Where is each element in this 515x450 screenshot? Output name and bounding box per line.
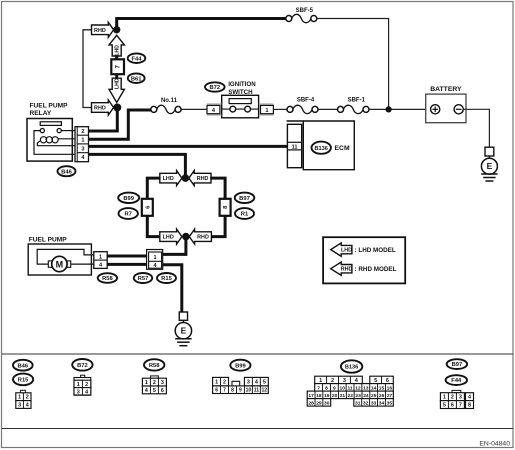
svg-text:23: 23 (355, 393, 361, 399)
wire thick right branch down through connector 8 (210, 178, 225, 199)
connector label B136 inside ECM (312, 142, 331, 154)
svg-text:28: 28 (308, 400, 314, 406)
svg-text:R7: R7 (124, 212, 131, 218)
svg-text:7: 7 (317, 385, 320, 391)
svg-text:RELAY: RELAY (30, 110, 52, 117)
legend LHD arrow (331, 243, 352, 256)
arrow LHD into bottom node (160, 229, 182, 244)
svg-text:SBF-5: SBF-5 (296, 8, 314, 14)
arrow RHD (top, points right into node) (92, 22, 114, 37)
svg-text:3: 3 (161, 380, 164, 386)
svg-text:9: 9 (239, 388, 242, 394)
svg-text:RHD: RHD (341, 267, 353, 273)
svg-text:RHD: RHD (197, 176, 209, 182)
svg-text:35: 35 (387, 400, 393, 406)
svg-text:3: 3 (81, 146, 84, 152)
motor M1 brushes (48, 261, 52, 267)
svg-text:E: E (181, 326, 187, 336)
connector label R15 (pinout) (13, 374, 33, 386)
svg-text:26: 26 (379, 393, 385, 399)
svg-text:25: 25 (371, 393, 377, 399)
svg-text:B99: B99 (235, 363, 246, 369)
wire thick node down to relay pin 2 (89, 108, 118, 132)
connector label R57 oval (134, 273, 152, 283)
svg-text:RHD: RHD (197, 235, 209, 241)
wire thick R57 pin4 right and down to ground (163, 265, 182, 312)
connector label F44 (128, 53, 146, 63)
node junction dot battery feed (386, 106, 392, 112)
ground E (battery) (485, 147, 494, 156)
connector label R58 (pinout) (144, 359, 164, 370)
connector label B97 (pinout) (447, 359, 467, 369)
node junction dot top of diamond (182, 174, 190, 182)
svg-text:5: 5 (443, 403, 446, 409)
wire coil left end to pin 3 (37, 141, 75, 146)
connector B99 pinout 12-pin (213, 377, 229, 386)
svg-text:9: 9 (333, 385, 336, 391)
motor M1 fuel pump (52, 256, 67, 271)
battery BT1 box (426, 94, 466, 123)
svg-text:24: 24 (363, 393, 369, 399)
svg-text:3: 3 (343, 378, 346, 384)
svg-text:EN-04840: EN-04840 (479, 441, 510, 448)
svg-text:10: 10 (339, 385, 345, 391)
svg-text:RHD: RHD (94, 28, 106, 34)
svg-text:6: 6 (161, 388, 164, 394)
svg-text:F44: F44 (451, 378, 462, 384)
svg-text:R1: R1 (241, 212, 249, 218)
svg-text:12: 12 (355, 385, 361, 391)
svg-text:: RHD MODEL: : RHD MODEL (355, 266, 397, 273)
svg-text:11: 11 (254, 388, 260, 394)
svg-text:21: 21 (340, 393, 346, 399)
svg-text:B46: B46 (17, 363, 28, 369)
svg-text:8: 8 (231, 388, 234, 394)
connector label B46 (pinout) (13, 360, 33, 371)
arrow LHD into top node (160, 171, 182, 186)
svg-text:1: 1 (18, 395, 21, 401)
svg-text:LHD: LHD (163, 235, 174, 241)
svg-text:6: 6 (451, 403, 454, 409)
svg-text:M: M (56, 259, 64, 269)
battery minus terminal (454, 105, 463, 114)
connector label B99 (pinout) (230, 360, 250, 371)
wire ignition pin1 to SBF-4 (273, 108, 287, 110)
svg-text:5: 5 (263, 380, 266, 386)
svg-text:4: 4 (468, 395, 471, 401)
relay contact terminals (40, 129, 44, 133)
svg-text:6: 6 (215, 388, 218, 394)
wire thick relay pin 3 to ECM pin 11 (89, 145, 288, 148)
wire thick R58 pin4 to R57 pin4 (107, 263, 146, 266)
svg-text:1: 1 (265, 108, 268, 114)
wire SBF-4 to SBF-1 (318, 108, 338, 110)
svg-text:22: 22 (348, 393, 354, 399)
svg-text:3: 3 (459, 395, 462, 401)
arrow LHD pointing up (109, 35, 124, 56)
connector R58 pinout 3x2 (151, 376, 159, 378)
svg-text:3: 3 (18, 403, 21, 409)
wire thick LHD arrow to fuse 7 (115, 56, 118, 60)
svg-text:LHD: LHD (115, 45, 121, 56)
wire battery minus to ground (463, 109, 489, 147)
svg-text:E: E (487, 161, 493, 171)
wire thick relay pin 4 right and down to LHD/RHD node (89, 154, 186, 175)
svg-text:R15: R15 (18, 378, 29, 384)
svg-text:31: 31 (355, 400, 361, 406)
svg-text:B136: B136 (345, 365, 358, 371)
svg-text:B99: B99 (123, 196, 134, 202)
svg-text:2: 2 (223, 380, 226, 386)
svg-text:8: 8 (325, 385, 328, 391)
svg-text:2: 2 (26, 395, 29, 401)
svg-text:B61: B61 (131, 76, 142, 82)
svg-text:17: 17 (308, 393, 314, 399)
wire left contact to pin 4 (34, 131, 75, 155)
wire fuse No.11 to ignition switch pin 4 (181, 108, 207, 110)
node junction dot above fuel pump relay (113, 104, 121, 112)
ignition switch SW1 box (222, 95, 259, 118)
svg-text:4: 4 (255, 380, 258, 386)
svg-text:1: 1 (443, 395, 446, 401)
ignition switch terminals (222, 108, 259, 110)
connector B97/F44 pinout 8-pin (452, 390, 461, 392)
wire thin left bracket joining RHD arrow tails (83, 30, 92, 108)
svg-text:1: 1 (77, 382, 80, 388)
svg-text:2: 2 (85, 382, 88, 388)
connector R57/R15 pins 1 4 (147, 250, 163, 270)
svg-text:SBF-4: SBF-4 (297, 98, 315, 104)
wire pump internal to pin 1 (37, 249, 94, 264)
fuse SBF-5 on top feed (286, 16, 292, 22)
svg-text:B72: B72 (209, 85, 220, 91)
svg-text:R57: R57 (138, 276, 149, 282)
svg-text:2: 2 (451, 395, 454, 401)
fuse SBF-1 (338, 106, 344, 112)
fuel pump box (28, 244, 91, 275)
legend RHD arrow (331, 262, 352, 275)
svg-text:FUEL PUMP: FUEL PUMP (29, 236, 68, 243)
arrow RHD into top node (189, 171, 211, 186)
svg-text:8: 8 (468, 403, 471, 409)
svg-text:5: 5 (374, 378, 377, 384)
svg-text:1: 1 (99, 254, 102, 260)
arrow RHD (bottom, points right into node) (92, 100, 114, 115)
svg-text:IGNITION: IGNITION (228, 81, 256, 88)
ECM U2 box (287, 121, 355, 170)
svg-text:B136: B136 (315, 146, 328, 152)
connector label B72 (205, 82, 225, 91)
connector label B136 (pinout) (341, 360, 362, 372)
svg-text:18: 18 (316, 393, 322, 399)
svg-text:2: 2 (81, 129, 84, 135)
relay U1 box (27, 119, 72, 162)
svg-text:33: 33 (371, 400, 377, 406)
separator line above footer (2, 428, 513, 430)
svg-text:FUEL PUMP: FUEL PUMP (30, 103, 69, 110)
svg-text:1: 1 (81, 138, 84, 144)
wire thick bottom node down to R57 pin 1 (163, 237, 186, 255)
svg-text:12: 12 (262, 388, 268, 394)
ignition pin 1 cell (259, 103, 274, 105)
svg-text:27: 27 (387, 393, 393, 399)
ignition pin 4 cell (207, 103, 222, 105)
connector label R1 (235, 208, 254, 219)
svg-text:3: 3 (77, 389, 80, 395)
svg-text:: LHD MODEL: : LHD MODEL (355, 247, 396, 254)
svg-text:13: 13 (363, 385, 369, 391)
svg-text:F44: F44 (132, 56, 143, 62)
svg-text:3: 3 (247, 380, 250, 386)
svg-text:LHD: LHD (115, 78, 121, 89)
wire thick R58 pin1 to R57 pin1 (107, 255, 146, 258)
svg-text:15: 15 (379, 385, 385, 391)
connector R58 pins 1 4 (94, 252, 107, 269)
battery plus terminal (431, 105, 440, 114)
svg-text:16: 16 (387, 385, 393, 391)
arrow RHD into bottom node (189, 229, 211, 244)
relay connector strip pins 2 1 3 4 (75, 127, 89, 162)
wire thick from top node up and right to SBF-5 (117, 19, 288, 34)
svg-text:11: 11 (347, 385, 352, 391)
relay coil L1 (40, 137, 46, 143)
wire right contact to pin 2 (61, 130, 75, 132)
svg-text:R58: R58 (102, 276, 113, 282)
svg-text:19: 19 (324, 393, 330, 399)
svg-text:29: 29 (316, 400, 322, 406)
svg-text:4: 4 (85, 389, 88, 395)
svg-text:20: 20 (332, 393, 338, 399)
connector label B61 (128, 73, 145, 83)
svg-text:LHD: LHD (163, 176, 174, 182)
svg-text:B97: B97 (452, 362, 463, 368)
ECM connector strip with pin 11 (287, 124, 301, 167)
svg-text:32: 32 (363, 400, 369, 406)
svg-text:1: 1 (319, 378, 322, 384)
fuse No.11 (151, 106, 157, 112)
connector B46/R15 pinout 2x2 (21, 390, 26, 393)
ignition switch contact bar (229, 99, 251, 104)
fuse 7 box (F44/B61 circuit breaker) (111, 59, 124, 74)
svg-text:R15: R15 (161, 276, 172, 282)
connector label B99 at diamond (118, 193, 139, 203)
separator line above connector section (2, 353, 513, 355)
svg-text:14: 14 (371, 385, 377, 391)
svg-text:LHD: LHD (341, 248, 352, 254)
svg-text:4: 4 (26, 403, 29, 409)
connector label B97 at diamond (235, 193, 255, 203)
svg-text:4: 4 (145, 388, 148, 394)
svg-text:B97: B97 (239, 196, 250, 202)
node junction dot top-left (113, 26, 120, 33)
wire coil right end to pin 1 (58, 138, 75, 140)
connector 6 box (B99/R7) (142, 199, 153, 216)
svg-text:2: 2 (331, 378, 334, 384)
svg-text:RHD: RHD (94, 106, 106, 112)
wire SBF-1 to battery plus (369, 108, 431, 110)
ground E (fuel pump) (179, 312, 187, 320)
svg-text:B46: B46 (61, 169, 72, 175)
svg-text:34: 34 (379, 400, 385, 406)
connector label F44 (pinout) (446, 375, 467, 385)
svg-text:B72: B72 (77, 363, 88, 369)
svg-text:ECM: ECM (335, 145, 350, 152)
wire thick left branch down through connector 6 (147, 178, 160, 199)
connector label R58 oval (98, 273, 117, 283)
wire thick relay pin 1 up to fuse No.11 (89, 110, 152, 139)
wire thick fuse to LHD down arrow (115, 74, 118, 78)
svg-text:1: 1 (215, 380, 218, 386)
connector label R7 (119, 208, 138, 219)
svg-text:7: 7 (459, 403, 462, 409)
svg-text:BATTERY: BATTERY (430, 86, 462, 93)
svg-text:No.11: No.11 (161, 98, 178, 104)
arrow LHD pointing down (109, 78, 124, 102)
wire SBF-5 right and down to junction (317, 19, 389, 110)
connector label B46 under relay (58, 166, 76, 176)
svg-text:7: 7 (223, 388, 226, 394)
wire pump internal to pin 4 (71, 263, 94, 265)
connector 8 box (B97/R1) (220, 199, 231, 216)
svg-text:10: 10 (246, 388, 252, 394)
svg-text:6: 6 (386, 378, 389, 384)
legend box (323, 237, 405, 283)
connector label B72 (pinout) (72, 359, 92, 371)
svg-text:30: 30 (324, 400, 330, 406)
svg-text:2: 2 (153, 380, 156, 386)
connector B72 pinout 2x2 with header (81, 375, 85, 377)
svg-text:R58: R58 (149, 363, 160, 369)
relay movable contact bar (40, 122, 61, 126)
connector label R15 oval (157, 273, 176, 283)
svg-text:SBF-1: SBF-1 (348, 98, 366, 104)
node junction dot bottom of diamond (182, 233, 190, 241)
wire thick connector 8 to bottom RHD arrow (210, 216, 225, 237)
fuse SBF-4 (287, 106, 293, 112)
wire thick connector 6 to bottom LHD arrow (147, 216, 160, 237)
svg-text:1: 1 (154, 255, 157, 261)
svg-text:1: 1 (145, 380, 148, 386)
svg-text:11: 11 (292, 144, 298, 150)
svg-text:5: 5 (153, 388, 156, 394)
connector B136 pinout 35-pin (315, 376, 363, 383)
